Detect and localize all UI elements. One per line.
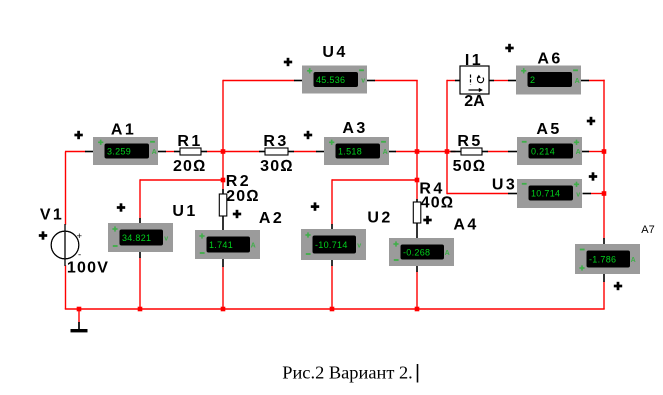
wire A2 to bottom rail bbox=[222, 267, 224, 310]
wire R1 right lead bbox=[201, 151, 208, 153]
svg-text:A: A bbox=[152, 149, 157, 156]
svg-text:A1: A1 bbox=[111, 122, 136, 139]
svg-text:A: A bbox=[631, 257, 636, 264]
svg-text:v: v bbox=[164, 236, 168, 243]
meter A1 body bbox=[93, 137, 158, 165]
junction A4 at bottom rail bbox=[415, 307, 420, 312]
wire middle: A1 to R1 bbox=[166, 151, 175, 153]
svg-text:A5: A5 bbox=[536, 121, 561, 138]
svg-text:R5: R5 bbox=[457, 133, 482, 150]
meter U1 body bbox=[108, 223, 173, 252]
svg-text:A: A bbox=[576, 149, 581, 156]
svg-text:V1: V1 bbox=[40, 207, 64, 224]
svg-text:10.714: 10.714 bbox=[531, 189, 560, 199]
resistor R1 bbox=[180, 148, 201, 155]
wire ground stub bbox=[78, 309, 80, 323]
svg-text:U3: U3 bbox=[492, 177, 517, 194]
wire I1 to A6 bbox=[494, 80, 509, 82]
junction U1-link tee bbox=[221, 178, 226, 183]
svg-text:+: + bbox=[77, 231, 83, 242]
meter A2 body bbox=[195, 230, 260, 259]
wire R4 bottom lead to A4 top pin bbox=[416, 223, 418, 239]
meter U2 body bbox=[301, 229, 366, 260]
resistor R3 bbox=[265, 148, 288, 155]
svg-text:R3: R3 bbox=[263, 133, 288, 150]
wire left rail upper (node 1 to V1) bbox=[65, 152, 67, 225]
svg-text:-1.786: -1.786 bbox=[589, 255, 616, 265]
wire A7 bottom pin bbox=[603, 274, 605, 283]
svg-text:2: 2 bbox=[530, 75, 535, 85]
wire middle: A5 to right rail bbox=[589, 151, 605, 153]
svg-text:20Ω: 20Ω bbox=[173, 158, 207, 175]
wire A1 left pin bbox=[85, 151, 94, 153]
wire U2 link to riser C bbox=[332, 179, 417, 181]
svg-text:50Ω: 50Ω bbox=[453, 158, 487, 175]
junction node C on middle wire bbox=[415, 149, 420, 154]
polarity + of U3 bbox=[589, 172, 597, 180]
svg-text:2A: 2A bbox=[464, 93, 485, 110]
wire middle: A3 to R5 through nodes C,D bbox=[396, 151, 456, 153]
wire U2 to bottom rail bbox=[331, 266, 333, 310]
svg-text:R1: R1 bbox=[177, 133, 202, 150]
svg-text:A2: A2 bbox=[259, 210, 284, 227]
wire R3 left lead bbox=[259, 151, 266, 153]
wire U2 top pin bbox=[331, 224, 333, 230]
wire U3 left pin bbox=[508, 193, 518, 195]
svg-text:45.536: 45.536 bbox=[316, 75, 345, 85]
meter U4 body bbox=[302, 66, 367, 94]
wire R3 right lead bbox=[288, 151, 295, 153]
wire A4 to bottom rail bbox=[416, 272, 418, 310]
wire R5 left lead bbox=[451, 151, 462, 153]
junction U2 at bottom rail bbox=[330, 307, 335, 312]
wire U1 to bottom rail bbox=[139, 258, 141, 310]
current source I1 bbox=[460, 66, 489, 94]
svg-text:-0.268: -0.268 bbox=[403, 248, 430, 258]
svg-text:1.741: 1.741 bbox=[209, 240, 233, 250]
polarity + of V1 bbox=[39, 231, 47, 239]
svg-text:A: A bbox=[383, 149, 388, 156]
svg-text:A4: A4 bbox=[453, 217, 478, 234]
wire down to U2 bbox=[331, 179, 333, 224]
svg-text:v: v bbox=[361, 78, 365, 85]
svg-text:v: v bbox=[357, 243, 361, 250]
wire down to U1 bbox=[139, 179, 141, 218]
wire U2 bottom pin bbox=[331, 260, 333, 267]
wire riser E (I1 down across middle to U3 link) bbox=[446, 80, 448, 194]
ground bbox=[71, 322, 88, 332]
svg-text:A: A bbox=[445, 250, 450, 257]
wire R5 right lead bbox=[482, 151, 489, 153]
svg-text:U4: U4 bbox=[322, 44, 347, 61]
wire A1 right pin bbox=[158, 151, 167, 153]
polarity + of U1 bbox=[117, 203, 125, 211]
svg-text:Рис.2 Вариант 2.: Рис.2 Вариант 2. bbox=[282, 363, 413, 383]
wire middle: R5 to A5 bbox=[488, 151, 509, 153]
wire middle: R1 to R3 through node B bbox=[207, 151, 260, 153]
wire A5 left pin bbox=[508, 151, 518, 153]
resistor R2 bbox=[219, 194, 227, 216]
wire middle: R3 to A3 bbox=[294, 151, 317, 153]
junction A2 at bottom rail bbox=[221, 307, 226, 312]
wire U1 bottom pin bbox=[139, 252, 141, 259]
junction node D on middle wire bbox=[445, 149, 450, 154]
wire top: node B corner to U4 bbox=[223, 80, 295, 82]
meter A4 body bbox=[389, 238, 454, 266]
wire node E to U3 bbox=[447, 193, 509, 195]
wire middle: node1 to A1 bbox=[65, 151, 86, 153]
junction node B on middle wire bbox=[221, 149, 226, 154]
wire A5 right pin bbox=[582, 151, 590, 153]
wire U1 top pin bbox=[139, 218, 141, 224]
wire right rail upper bbox=[603, 80, 605, 239]
wire U3 to right rail bbox=[591, 193, 605, 195]
wire A4 bottom pin bbox=[416, 266, 418, 273]
polarity + of A2 bbox=[233, 210, 241, 218]
wire R4 top lead bbox=[416, 199, 418, 203]
wire U4 right pin bbox=[367, 80, 376, 82]
wire U1 link to node B riser bbox=[140, 179, 223, 181]
polarity + of U2 bbox=[311, 202, 319, 210]
wire I1 left lead bbox=[455, 80, 461, 82]
svg-text:I1: I1 bbox=[465, 52, 483, 69]
polarity + of A4 bbox=[423, 216, 431, 224]
junction A5 at right rail bbox=[602, 149, 607, 154]
svg-text:U2: U2 bbox=[367, 210, 392, 227]
text cursor bbox=[417, 364, 419, 383]
svg-text:-10.714: -10.714 bbox=[315, 240, 348, 250]
meter A7 body bbox=[575, 244, 640, 274]
junction U1 at bottom rail bbox=[138, 307, 143, 312]
voltage source V1 bbox=[51, 224, 79, 266]
wire top: U4 to riser C bbox=[375, 80, 418, 82]
wire A6 to right rail corner bbox=[589, 80, 605, 82]
wire bottom rail bbox=[65, 308, 605, 310]
svg-text:A6: A6 bbox=[537, 51, 562, 68]
junction U3 at right rail bbox=[602, 191, 607, 196]
wire R1 left lead bbox=[174, 151, 181, 153]
svg-text:0.214: 0.214 bbox=[531, 147, 555, 157]
wire A7 top pin bbox=[603, 238, 605, 245]
svg-text:A: A bbox=[575, 78, 580, 85]
wire R2 bottom lead to A2 top pin bbox=[222, 216, 224, 231]
wire U4 left pin bbox=[294, 80, 303, 82]
svg-text:v: v bbox=[576, 192, 580, 199]
wire A6 right pin bbox=[581, 80, 590, 82]
wire left rail lower (V1 to bottom rail) bbox=[65, 265, 67, 309]
wire riser node B (top rail to R2) bbox=[222, 80, 224, 190]
svg-text:U1: U1 bbox=[172, 203, 197, 220]
svg-text:1.518: 1.518 bbox=[338, 147, 362, 157]
svg-text:30Ω: 30Ω bbox=[260, 158, 294, 175]
meter A5 body bbox=[517, 137, 582, 165]
wire A3 left pin bbox=[316, 151, 325, 153]
meter U3 body bbox=[517, 179, 582, 208]
svg-text:20Ω: 20Ω bbox=[226, 188, 260, 205]
polarity + of A1 bbox=[74, 131, 82, 139]
wire A3 right pin bbox=[388, 151, 397, 153]
polarity + of A6 bbox=[505, 44, 513, 52]
wire A6 left pin bbox=[508, 80, 517, 82]
wire R2 top lead bbox=[222, 189, 224, 195]
wire I1 left bbox=[447, 80, 456, 82]
polarity + of A7 bbox=[614, 282, 622, 290]
wire I1 right lead bbox=[489, 80, 495, 82]
wire U3 right pin bbox=[583, 193, 592, 195]
svg-text:40Ω: 40Ω bbox=[421, 195, 455, 212]
polarity + of A3 bbox=[304, 131, 312, 139]
polarity + of A5 bbox=[587, 117, 595, 125]
svg-text:34.821: 34.821 bbox=[122, 233, 151, 243]
svg-text:3.259: 3.259 bbox=[107, 147, 131, 157]
junction U2-link tee bbox=[415, 178, 420, 183]
meter A3 body bbox=[324, 137, 389, 165]
junction ground tee bbox=[77, 307, 82, 312]
resistor R4 bbox=[413, 202, 421, 223]
svg-text:A7: A7 bbox=[641, 224, 654, 236]
wire A2 bottom pin bbox=[222, 259, 224, 268]
svg-text:A3: A3 bbox=[342, 120, 367, 137]
resistor R5 bbox=[461, 148, 482, 155]
meter A6 body bbox=[516, 66, 581, 95]
wire right rail lower (A7 to bottom) bbox=[603, 282, 605, 310]
wire riser C (top to R4) bbox=[416, 80, 418, 200]
polarity + of U4 bbox=[284, 58, 292, 66]
svg-text:A: A bbox=[251, 243, 256, 250]
svg-text:100V: 100V bbox=[67, 260, 109, 277]
